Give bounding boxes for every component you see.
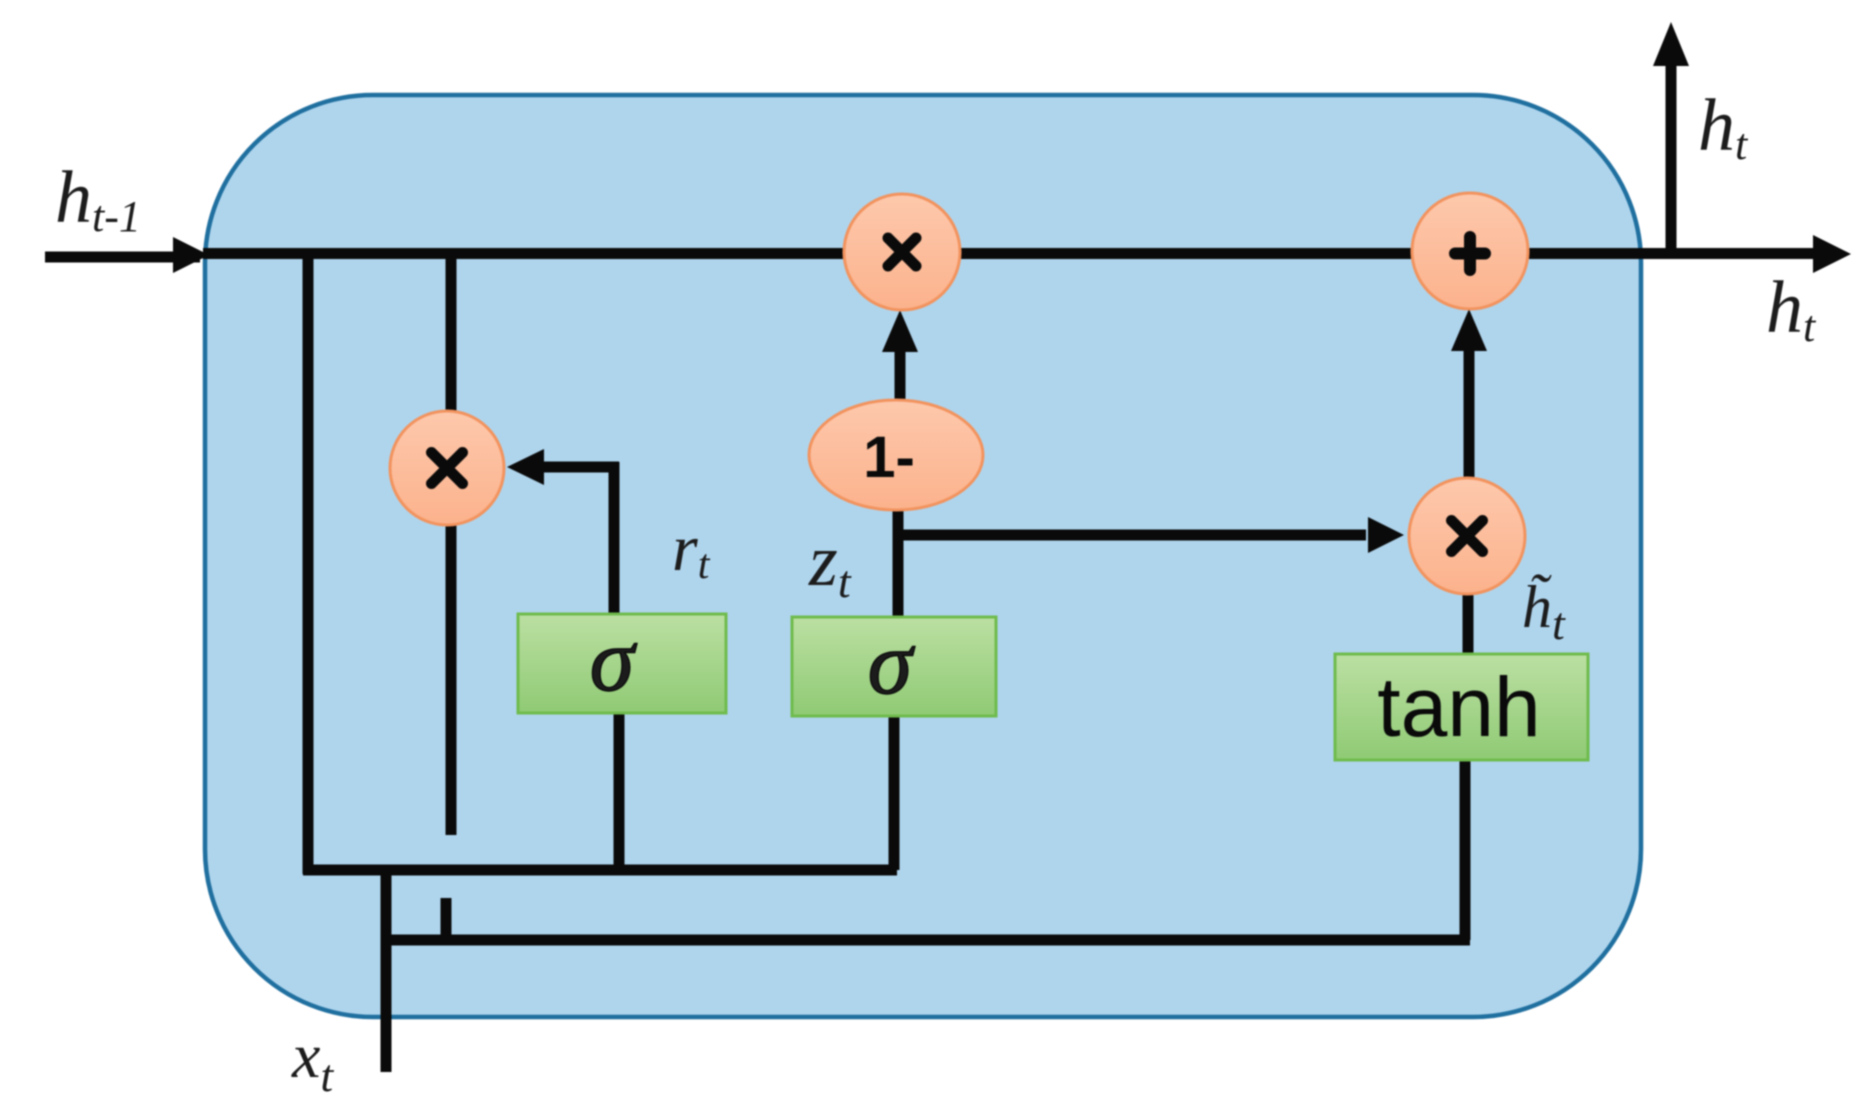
wire: bottom bus 2 to tanh: [386, 935, 1470, 946]
svg-text:1-: 1-: [863, 425, 915, 490]
wire: branch from z to right multiplier: [898, 530, 1366, 541]
wire: drop at x=308 from h line to bottom bus: [303, 254, 314, 874]
wire: x_t input vertical: [381, 866, 392, 1072]
wire: stub below bus1 to bus2: [441, 898, 452, 940]
multiplier circle (right, candidate): [1409, 478, 1525, 594]
wire: drop at x=451 through reset-gate multiplier: [446, 254, 457, 835]
tanh box: [1335, 654, 1588, 760]
wire: sigma1 bottom to bus1: [614, 713, 625, 870]
sigma box 2 (update gate): [792, 617, 996, 716]
wire: bottom bus 1: [303, 865, 897, 876]
GRU cell body: [205, 95, 1641, 1017]
wire: elbow arrow into reset multiplier: [541, 462, 619, 473]
wire: sigma2 bottom to bus1: [889, 716, 900, 870]
wire: right multiplier down to tanh: [1463, 590, 1474, 658]
wire+arrow: 1- ellipse up into top multiplier: [895, 348, 906, 404]
svg-text:σ: σ: [868, 614, 916, 713]
arrowhead up h_t: [1653, 22, 1689, 66]
1- ellipse: [809, 400, 983, 510]
arrowhead into cell (left): [173, 237, 209, 273]
svg-text:σ: σ: [590, 611, 638, 710]
multiplier circle (reset gate): [390, 411, 504, 525]
wire: main horizontal h line: [203, 248, 1816, 259]
wire: vertical h_t output arrow: [1666, 62, 1677, 259]
wire+arrow: right multiplier up into +: [1464, 346, 1475, 482]
adder circle: [1412, 193, 1528, 309]
arrowhead output right h_t: [1813, 235, 1851, 273]
wire: sigma2 top vertical to 1- ellipse: [893, 430, 904, 617]
wire: h input segment outside cell: [45, 252, 200, 263]
svg-text:tanh: tanh: [1377, 660, 1541, 754]
sigma box 1 (reset gate): [518, 614, 726, 713]
multiplier circle (top, z gate): [844, 194, 960, 310]
wire: tanh bottom elbow to bus2: [1460, 760, 1471, 940]
